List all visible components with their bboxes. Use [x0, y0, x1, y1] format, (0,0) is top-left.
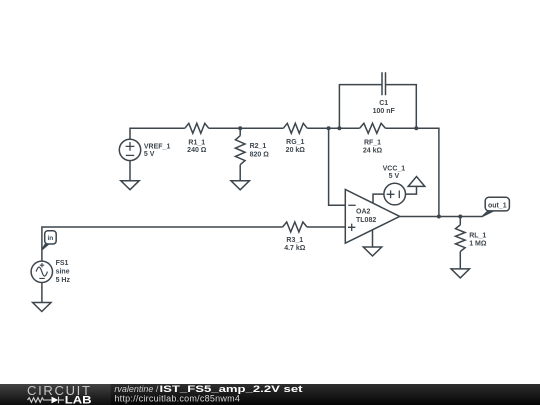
wire RL_1 top lead [459, 217, 461, 225]
svg-text:100 nF: 100 nF [373, 108, 396, 115]
svg-text:R3_1: R3_1 [286, 237, 303, 244]
wire main top rail y=128.3 from VREF corner to R1_1 [130, 128, 185, 139]
ground (RL_1) [451, 269, 469, 278]
svg-text:OA2: OA2 [356, 209, 371, 216]
wire in net: corner down to FS1 and across to R3_1 [42, 227, 283, 261]
svg-text:1 MΩ: 1 MΩ [469, 241, 487, 248]
svg-text:R1_1: R1_1 [188, 140, 205, 147]
resistor R2_1 [235, 136, 245, 165]
svg-text:5 V: 5 V [389, 173, 400, 180]
svg-text:RG_1: RG_1 [286, 139, 304, 146]
resistor RF_1 [360, 123, 386, 133]
op-amp minus pin mark [348, 204, 355, 206]
wire C1 loop left vertical [339, 85, 382, 129]
op-amp plus pin mark [348, 224, 355, 231]
svg-text:in: in [48, 235, 54, 242]
junction R2_1 top node [238, 126, 242, 130]
svg-text:FS1: FS1 [56, 260, 69, 267]
resistor RL_1 [456, 225, 466, 252]
FS1 plus minus marks [39, 263, 44, 278]
svg-text:240 Ω: 240 Ω [187, 147, 207, 154]
FS1 sine squiggle [36, 267, 47, 276]
footer bar [0, 384, 540, 405]
wire FS1 bottom to ground [41, 282, 43, 302]
svg-text:VREF_1: VREF_1 [144, 144, 171, 151]
voltage source VCC_1 [384, 183, 406, 205]
svg-text:820 Ω: 820 Ω [250, 151, 270, 158]
svg-text:sine: sine [56, 268, 70, 275]
CircuitLab logo schematic glyph [28, 398, 52, 403]
junction C1 right node [414, 126, 418, 130]
wire VCC_1 to power arrow [406, 186, 417, 194]
wire R1_1 to RG_1 (through R2 node) [209, 127, 283, 129]
wire RG_1 to RF_1 (through nodes) [307, 127, 359, 129]
svg-text:TL082: TL082 [356, 217, 376, 224]
svg-text:RL_1: RL_1 [469, 232, 486, 239]
capacitor C1 [382, 72, 386, 95]
svg-text:http://circuitlab.com/c85nwm4: http://circuitlab.com/c85nwm4 [114, 393, 240, 403]
junction feedback/output node [437, 215, 441, 219]
ground (R2_1) [231, 181, 249, 190]
wire op-amp V+ stem to VCC_1 [373, 194, 384, 203]
ground (op-amp) [363, 247, 381, 256]
wire RL_1 bottom lead to ground [459, 252, 461, 269]
junction inverting-input node [327, 126, 331, 130]
voltage source VREF_1 [119, 139, 140, 160]
wire C1 loop right vertical [386, 85, 417, 129]
wire R3_1 to op-amp + input [307, 226, 345, 228]
wire RF_1 right to feedback corner [385, 128, 439, 216]
junction RL_1 top node (out_1) [458, 215, 462, 219]
junction C1 left node [337, 126, 341, 130]
wire op-amp output to out_1 [400, 216, 483, 218]
wire op-amp V- stem to ground [372, 230, 374, 247]
resistor R3_1 [283, 222, 307, 232]
svg-text:20 kΩ: 20 kΩ [286, 147, 306, 154]
sine source FS1 [31, 261, 52, 282]
svg-text:C1: C1 [379, 100, 388, 107]
resistor RG_1 [283, 123, 307, 133]
svg-text:VCC_1: VCC_1 [383, 165, 406, 172]
svg-text:RF_1: RF_1 [364, 140, 381, 147]
resistor R1_1 [185, 123, 209, 133]
wire R2_1 bottom lead to ground [239, 165, 241, 181]
wire VREF bottom to ground [129, 160, 131, 180]
svg-text:R2_1: R2_1 [250, 143, 267, 150]
svg-text:LAB: LAB [65, 395, 92, 405]
ground (VREF) [121, 181, 139, 190]
svg-text:24 kΩ: 24 kΩ [363, 147, 383, 154]
op-amp OA2 [345, 190, 399, 244]
wire inverting input from node to op-amp [329, 128, 346, 205]
node flag in [41, 244, 50, 251]
ground (FS1) [33, 303, 51, 312]
svg-text:5 Hz: 5 Hz [56, 277, 71, 284]
svg-text:out_1: out_1 [488, 202, 507, 209]
svg-text:4.7 kΩ: 4.7 kΩ [284, 245, 306, 252]
node flag out_1 [482, 211, 495, 217]
wire R2_1 top lead [239, 128, 241, 135]
svg-text:5 V: 5 V [144, 151, 155, 158]
power arrow (VCC rail symbol) [408, 177, 425, 187]
